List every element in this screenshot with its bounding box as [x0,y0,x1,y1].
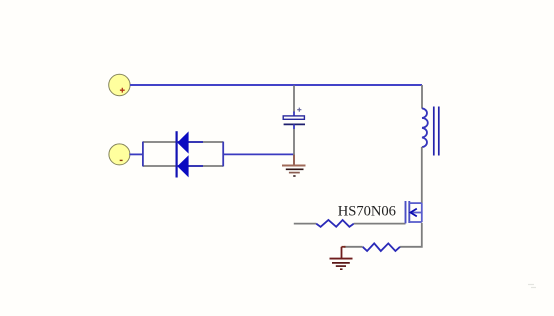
inductor L1 winding [422,108,428,147]
wire negative terminal to TVS box [129,153,143,155]
terminal P1 (+) [109,74,130,95]
wire box left edge [142,142,144,167]
wire Q1 source down to R2 [400,223,422,247]
resistor R2 (source shunt) [363,243,400,251]
capacitor C1 pin bottom [293,129,295,155]
bidirectional TVS diode D1 [177,131,203,177]
capacitor C1 (electrolytic, + plate) [283,108,305,129]
MOSFET Q1 (N-channel, HS70N06) [406,201,422,223]
capacitor C1 pin top [293,86,295,113]
stray faint marks bottom right [528,285,536,288]
wire L1 bottom to Q1 drain [421,147,423,203]
resistor R2 pin 1 lead to ground [344,246,363,248]
resistor R1 (gate series) [316,220,354,227]
terminal P2 (-) [109,144,130,165]
inductor L1 pin top [421,85,423,109]
wire positive rail [130,84,422,86]
ground GND2 (power ground at R2) [330,247,353,269]
TVS D1 body box (gray top/bottom edges) [143,142,223,166]
resistor R1 pin 1 lead (open end) [294,223,316,225]
inductor L1 core bars [434,107,439,156]
resistor R1 pin 2 lead to gate [354,223,406,225]
svg-text:HS70N06: HS70N06 [338,204,396,220]
wire TVS box to capacitor node [223,153,294,155]
ground GND1 (power ground under C1) [282,155,306,176]
wire box right edge [222,142,224,167]
